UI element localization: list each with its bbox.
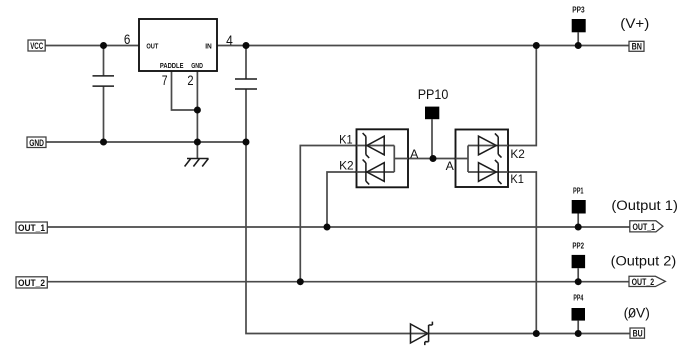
svg-text:6: 6 — [124, 31, 131, 47]
svg-text:IN: IN — [205, 42, 212, 51]
svg-text:GND: GND — [191, 61, 203, 70]
svg-text:OUT_2: OUT_2 — [18, 278, 45, 288]
svg-text:OUT_1: OUT_1 — [18, 223, 45, 233]
svg-text:7: 7 — [162, 72, 168, 88]
svg-text:4: 4 — [226, 32, 233, 48]
svg-text:BU: BU — [633, 329, 643, 339]
svg-text:OUT: OUT — [146, 41, 158, 50]
svg-text:VCC: VCC — [30, 41, 43, 51]
svg-text:PP10: PP10 — [418, 86, 449, 102]
svg-text:GND: GND — [29, 138, 44, 148]
svg-text:K2: K2 — [510, 147, 525, 161]
svg-text:PP4: PP4 — [573, 294, 583, 303]
svg-text:K1: K1 — [339, 133, 353, 147]
svg-text:BN: BN — [632, 41, 642, 51]
svg-text:PADDLE: PADDLE — [160, 61, 184, 70]
svg-text:PP1: PP1 — [573, 187, 584, 196]
svg-text:PP2: PP2 — [572, 242, 584, 251]
svg-text:(V+): (V+) — [620, 16, 649, 31]
svg-text:K1: K1 — [510, 172, 524, 186]
svg-text:K2: K2 — [339, 159, 354, 173]
svg-text:(Output 2): (Output 2) — [611, 254, 677, 269]
svg-text:A: A — [446, 159, 454, 173]
svg-text:(Output 1): (Output 1) — [611, 198, 678, 213]
svg-text:2: 2 — [187, 72, 193, 88]
svg-text:PP3: PP3 — [572, 5, 585, 14]
svg-text:(0V): (0V) — [624, 306, 650, 321]
svg-text:OUT_2: OUT_2 — [632, 277, 655, 287]
svg-text:OUT_1: OUT_1 — [633, 222, 656, 232]
svg-text:A: A — [410, 147, 418, 161]
